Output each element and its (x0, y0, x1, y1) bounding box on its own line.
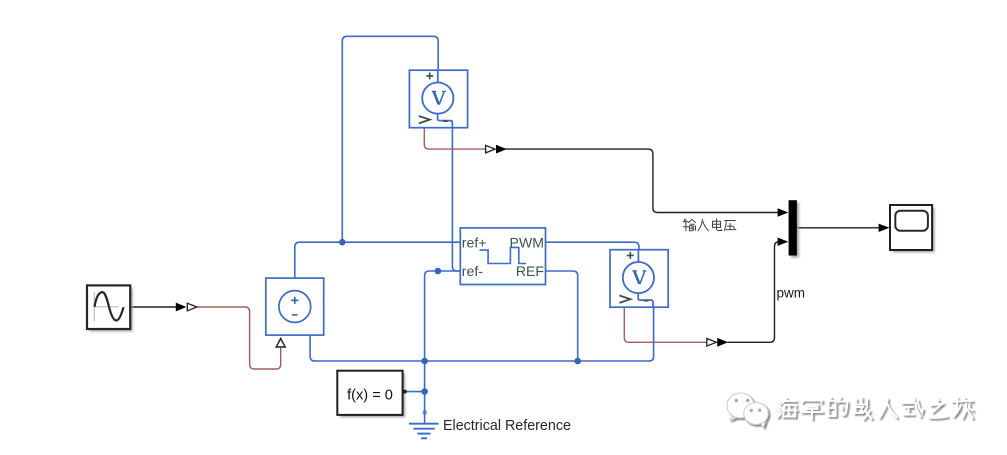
svg-text:ref+: ref+ (462, 234, 487, 250)
svg-text:pwm: pwm (777, 286, 806, 301)
svg-text:ref-: ref- (462, 263, 483, 279)
svg-text:REF: REF (516, 263, 545, 279)
svg-text:f(x) = 0: f(x) = 0 (347, 388, 393, 404)
svg-text:Electrical Reference: Electrical Reference (443, 418, 571, 434)
